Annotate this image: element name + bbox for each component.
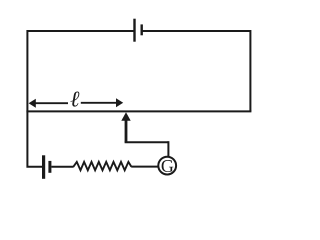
dimension arrow right (length l) [81,98,123,107]
wire down to galvanometer [167,141,169,157]
galvanometer G circle [158,157,176,175]
jockey arrow head [121,112,130,121]
wire jockey horizontal [125,141,169,143]
battery B2 short plate (bottom cell) [48,161,51,173]
battery B2 long plate (bottom cell) [42,155,45,179]
wire top-right + right side [142,31,251,111]
battery B1 short plate (top cell) [140,24,142,35]
wire top-left + left side + bottom-left segment [27,31,133,167]
jockey arrow shaft [125,120,128,143]
wire battery to resistor [51,166,73,168]
resistor R zigzag [73,162,131,170]
battery B1 long plate (top cell) [133,19,135,42]
wire potentiometer AB [26,110,251,112]
svg-text:ℓ: ℓ [70,87,80,112]
wire resistor to galvanometer [131,166,158,168]
dimension arrow left (length l) [29,99,68,108]
svg-text:G: G [161,156,174,176]
